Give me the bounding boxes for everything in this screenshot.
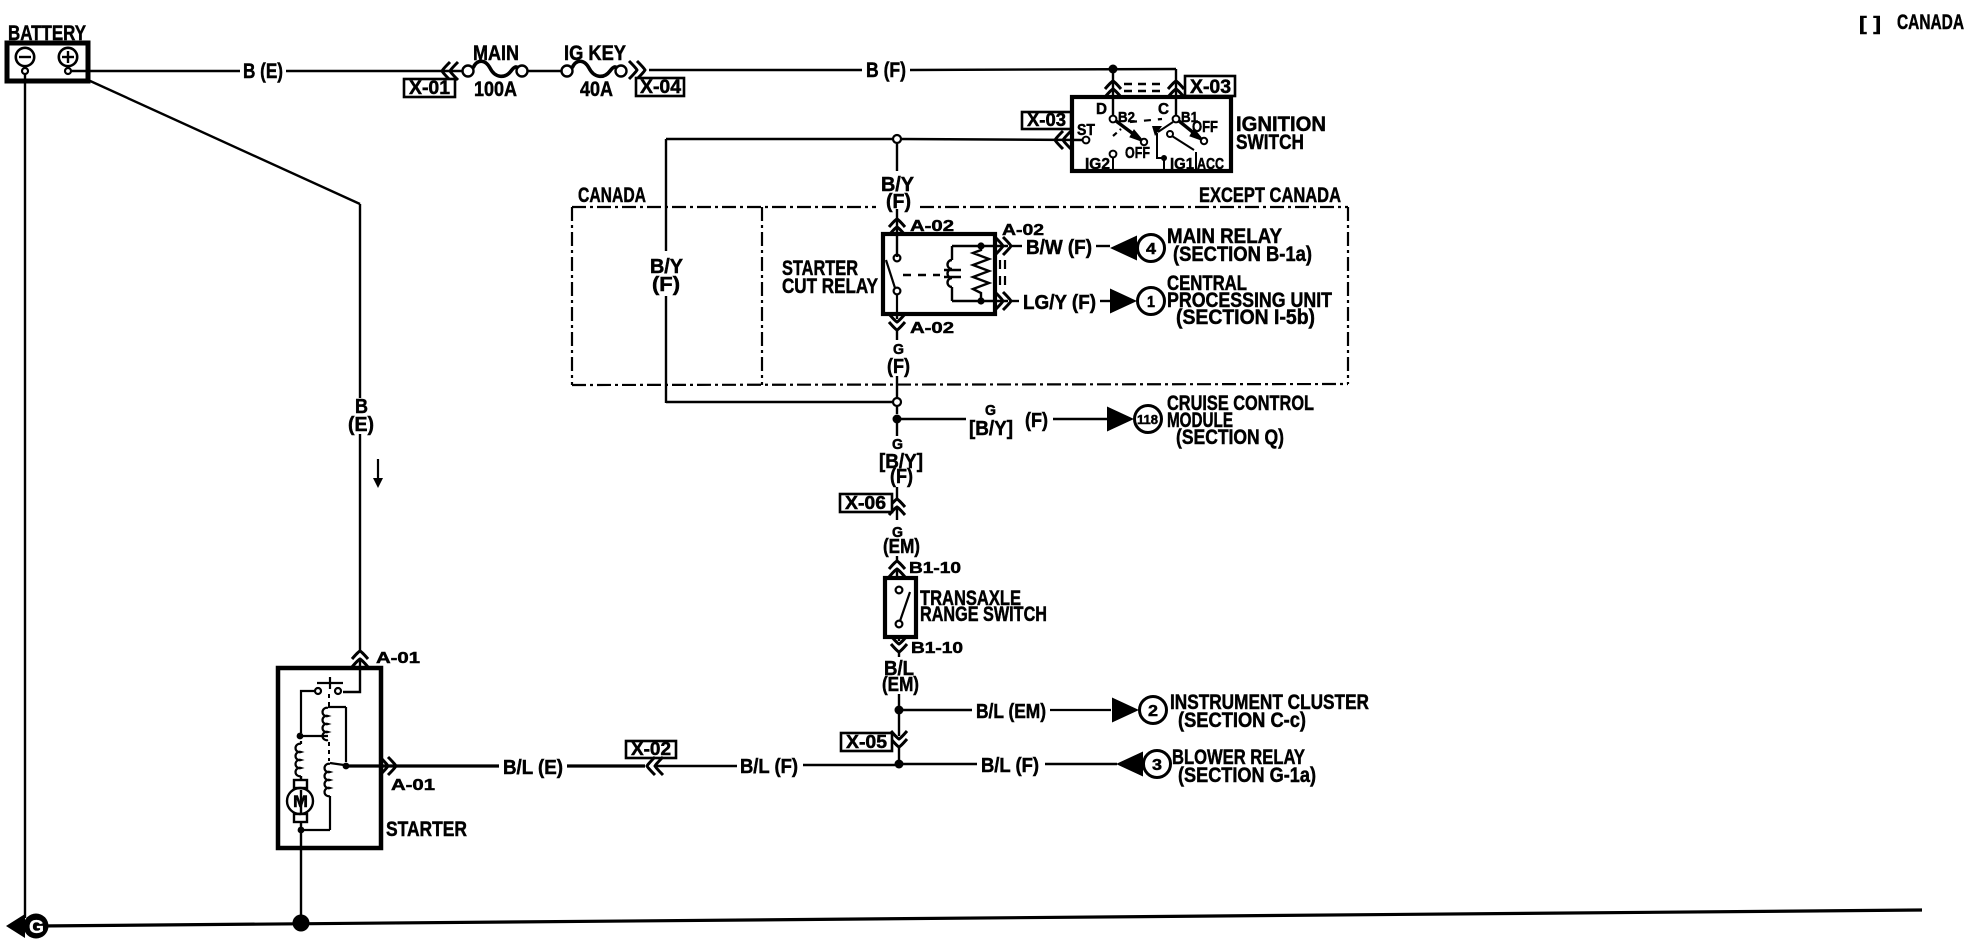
connector chevron X-04: [629, 61, 645, 79]
connector label X-01: [404, 78, 455, 99]
arrow to CPU: [1110, 289, 1137, 314]
ignition wiper to IG1: [1157, 122, 1173, 171]
svg-text:IG KEY: IG KEY: [564, 42, 626, 65]
note: [ ] CANADA legend: [1859, 11, 1964, 35]
connector chevron A-01 right: [380, 757, 396, 775]
svg-text:B/L (F): B/L (F): [740, 756, 798, 778]
svg-text:(SECTION Q): (SECTION Q): [1176, 426, 1284, 449]
svg-text:OFF: OFF: [1192, 119, 1218, 136]
svg-text:[ ]: [ ]: [1859, 14, 1881, 35]
svg-text:IG1: IG1: [1170, 156, 1194, 173]
starter M1: [278, 668, 381, 848]
connector chevron A-02 top: [889, 219, 905, 235]
svg-text:B2: B2: [1118, 109, 1135, 126]
fuse IG KEY 40A: [562, 61, 627, 76]
wire G (F) down: [896, 330, 898, 340]
wire B/L (EM) to instrument cluster: [899, 709, 972, 711]
wire junction down to ignition terminal D: [1112, 69, 1114, 116]
ignition wiper to ACC: [1167, 131, 1173, 137]
wire B/W (F): [1011, 245, 1022, 247]
svg-text:(SECTION B-1a): (SECTION B-1a): [1173, 243, 1312, 266]
connector chevron X-02: [647, 757, 663, 775]
starter solenoid contact: [301, 677, 343, 733]
circled 3: [1144, 751, 1171, 778]
battery: [7, 43, 88, 81]
node junction solenoid left: [297, 733, 304, 740]
svg-text:B (F): B (F): [866, 59, 906, 82]
relay switch contact: [886, 255, 900, 314]
node open junction mid: [893, 398, 901, 406]
svg-text:40A: 40A: [580, 78, 613, 101]
svg-text:M: M: [293, 792, 308, 811]
wire B (E) battery positive to fuse: [71, 70, 240, 72]
svg-text:(SECTION G-1a): (SECTION G-1a): [1178, 764, 1316, 787]
connector label X-05: [841, 732, 892, 752]
connector label X-04: [636, 77, 684, 98]
wire B (F) to ignition switch: [649, 69, 862, 71]
svg-text:X-01: X-01: [409, 78, 450, 99]
svg-text:B1-10: B1-10: [911, 640, 963, 657]
svg-text:LG/Y (F): LG/Y (F): [1023, 292, 1096, 314]
arrow to main relay: [1110, 236, 1137, 261]
svg-text:(EM): (EM): [882, 674, 919, 696]
svg-text:A-01: A-01: [391, 777, 435, 794]
svg-text:3: 3: [1152, 757, 1162, 774]
svg-text:[B/Y]: [B/Y]: [969, 418, 1013, 440]
connector label X-03 top: [1185, 76, 1235, 98]
svg-text:4: 4: [1146, 241, 1156, 258]
svg-text:(F): (F): [652, 274, 680, 296]
arrow to blower relay: [1116, 752, 1143, 777]
wire B/L (EM): [898, 652, 900, 657]
svg-text:CUT RELAY: CUT RELAY: [782, 275, 878, 298]
svg-text:OFF: OFF: [1125, 145, 1150, 162]
connector label X-02: [626, 739, 676, 759]
node junction B/L (E) output: [343, 763, 350, 770]
wire B/L (F) right to blower relay: [899, 763, 977, 765]
fuse MAIN 100A: [463, 61, 528, 76]
starter cut relay K1: [883, 234, 995, 314]
svg-text:CANADA: CANADA: [578, 184, 646, 207]
svg-text:1: 1: [1147, 294, 1155, 311]
svg-text:(SECTION C-c): (SECTION C-c): [1178, 709, 1306, 732]
svg-text:100A: 100A: [474, 78, 517, 101]
arrow to cruise module: [1107, 407, 1134, 432]
starter pull-in coil: [301, 707, 346, 762]
node junction motor bottom: [298, 827, 305, 834]
svg-text:(E): (E): [348, 414, 374, 436]
node junction blower: [895, 760, 904, 769]
svg-text:X-05: X-05: [846, 732, 887, 752]
connector label X-06: [840, 493, 892, 513]
svg-text:(EM): (EM): [883, 536, 920, 558]
wire battery negative to ground: [24, 74, 26, 918]
ignition blade B2-OFF: [1116, 121, 1147, 145]
starter field coil: [296, 741, 301, 776]
svg-text:(SECTION I-5b): (SECTION I-5b): [1176, 306, 1315, 329]
svg-text:(F): (F): [887, 356, 910, 378]
wire canada branch B/Y vertical: [665, 139, 667, 251]
connector label X-03 left: [1022, 110, 1071, 130]
circled 1: [1138, 288, 1165, 315]
connector chevron X-01: [442, 62, 458, 80]
node junction instrument cluster: [895, 706, 904, 715]
wire B/Y middle vertical into relay: [896, 143, 898, 171]
svg-text:(F): (F): [1025, 410, 1048, 432]
connector dashes between outputs: [999, 260, 1001, 290]
svg-text:2: 2: [1148, 703, 1158, 720]
svg-text:B/W (F): B/W (F): [1026, 237, 1092, 259]
current direction arrow: [377, 459, 379, 482]
connector chevron B1-10 bottom: [898, 637, 900, 641]
svg-text:(F): (F): [890, 466, 913, 488]
svg-text:B (E): B (E): [243, 60, 283, 83]
svg-text:118: 118: [1137, 412, 1158, 427]
svg-text:SWITCH: SWITCH: [1236, 131, 1304, 154]
connector X-03 chevrons and dashes: [1105, 81, 1121, 97]
wire ST left segment: [666, 138, 893, 140]
svg-text:X-06: X-06: [845, 493, 886, 513]
svg-text:D: D: [1096, 101, 1107, 118]
svg-text:B/L (EM): B/L (EM): [976, 701, 1046, 723]
starter motor M: [287, 776, 313, 830]
starter hold coil: [301, 763, 344, 830]
relay coil: [944, 246, 961, 301]
circled 118: [1135, 406, 1162, 433]
starter solenoid plunger dashes: [328, 694, 330, 706]
ground symbol G: [6, 914, 49, 939]
svg-text:X-04: X-04: [640, 77, 681, 98]
svg-text:G: G: [985, 402, 996, 419]
relay top bar to B/W output: [952, 245, 1008, 247]
node junction cruise: [893, 415, 902, 424]
wire LG/Y (F): [1011, 300, 1019, 302]
ignition coupling dashes: [1130, 119, 1162, 122]
svg-text:X-03: X-03: [1027, 110, 1066, 130]
wire B/L (E): [567, 764, 645, 767]
svg-text:EXCEPT CANADA: EXCEPT CANADA: [1199, 184, 1341, 207]
wire corner down to ignition terminal C: [1175, 69, 1177, 116]
svg-text:STARTER: STARTER: [386, 818, 467, 841]
connector chevron A-02 right top: [995, 237, 1011, 255]
wire cruise control: [897, 418, 966, 420]
svg-text:C: C: [1158, 101, 1169, 118]
svg-text:X-02: X-02: [631, 739, 671, 759]
circled 4: [1138, 235, 1165, 262]
ignition blade B1-OFF: [1179, 121, 1207, 144]
wire canada branch bottom to junction: [666, 401, 893, 403]
connector chevron X-05: [891, 731, 907, 747]
relay bottom bar to LG/Y output: [952, 300, 1008, 302]
svg-text:MAIN: MAIN: [473, 42, 519, 65]
connector chevron X-06: [889, 499, 905, 515]
svg-text:X-03: X-03: [1190, 77, 1231, 98]
node junction on B (F): [1109, 65, 1118, 74]
wire starter to ground: [300, 830, 302, 921]
svg-text:A-01: A-01: [376, 650, 420, 667]
wire ST from junction to ignition: [901, 139, 1083, 140]
wire G [B/Y] (F) column: [896, 423, 898, 436]
connector chevron X-03 on ST wire: [1055, 131, 1071, 149]
relay coupling dashes: [903, 274, 940, 276]
dash-dot CANADA box: [572, 207, 1348, 385]
wire between fuses: [528, 70, 561, 72]
svg-text:B1-10: B1-10: [909, 560, 961, 577]
node ground junction: [293, 915, 310, 932]
node open junction top: [893, 135, 901, 143]
connector chevron A-02 right bottom: [995, 292, 1011, 310]
svg-text:ST: ST: [1077, 122, 1095, 139]
svg-text:RANGE SWITCH: RANGE SWITCH: [920, 603, 1047, 626]
connector chevron A-01 top: [352, 651, 368, 667]
wire to cruise junction: [896, 406, 898, 414]
connector chevron B1-10 top: [889, 561, 905, 577]
svg-text:B/L (F): B/L (F): [981, 755, 1039, 777]
svg-text:IG2: IG2: [1085, 156, 1110, 173]
ignition switch U1: [1072, 97, 1231, 171]
svg-text:B/L (E): B/L (E): [503, 757, 563, 779]
transaxle range switch S1: [885, 578, 916, 637]
svg-text:(F): (F): [886, 191, 911, 213]
ground bus wire: [38, 910, 1922, 926]
wire down to X-05: [898, 714, 900, 736]
svg-text:CANADA: CANADA: [1897, 11, 1964, 34]
connector chevron A-02 bottom: [896, 314, 898, 319]
ignition IG2 lead: [1112, 157, 1114, 171]
wire B/L (F) left segment: [803, 764, 895, 766]
svg-text:ACC: ACC: [1197, 156, 1224, 173]
arrow to instrument cluster: [1112, 698, 1139, 723]
wire G (EM): [896, 508, 898, 520]
svg-text:G: G: [29, 917, 44, 937]
relay resistor: [973, 246, 989, 301]
circled 2: [1140, 697, 1167, 724]
wire battery diagonal to starter: [88, 80, 360, 204]
svg-text:A-02: A-02: [910, 320, 954, 337]
